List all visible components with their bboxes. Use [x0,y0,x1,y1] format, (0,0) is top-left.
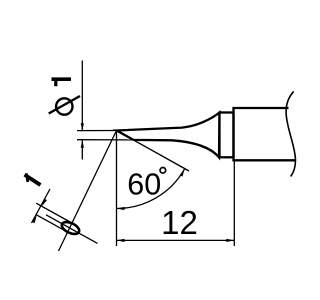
svg-text:60: 60 [127,168,161,202]
svg-text:12: 12 [161,204,198,241]
